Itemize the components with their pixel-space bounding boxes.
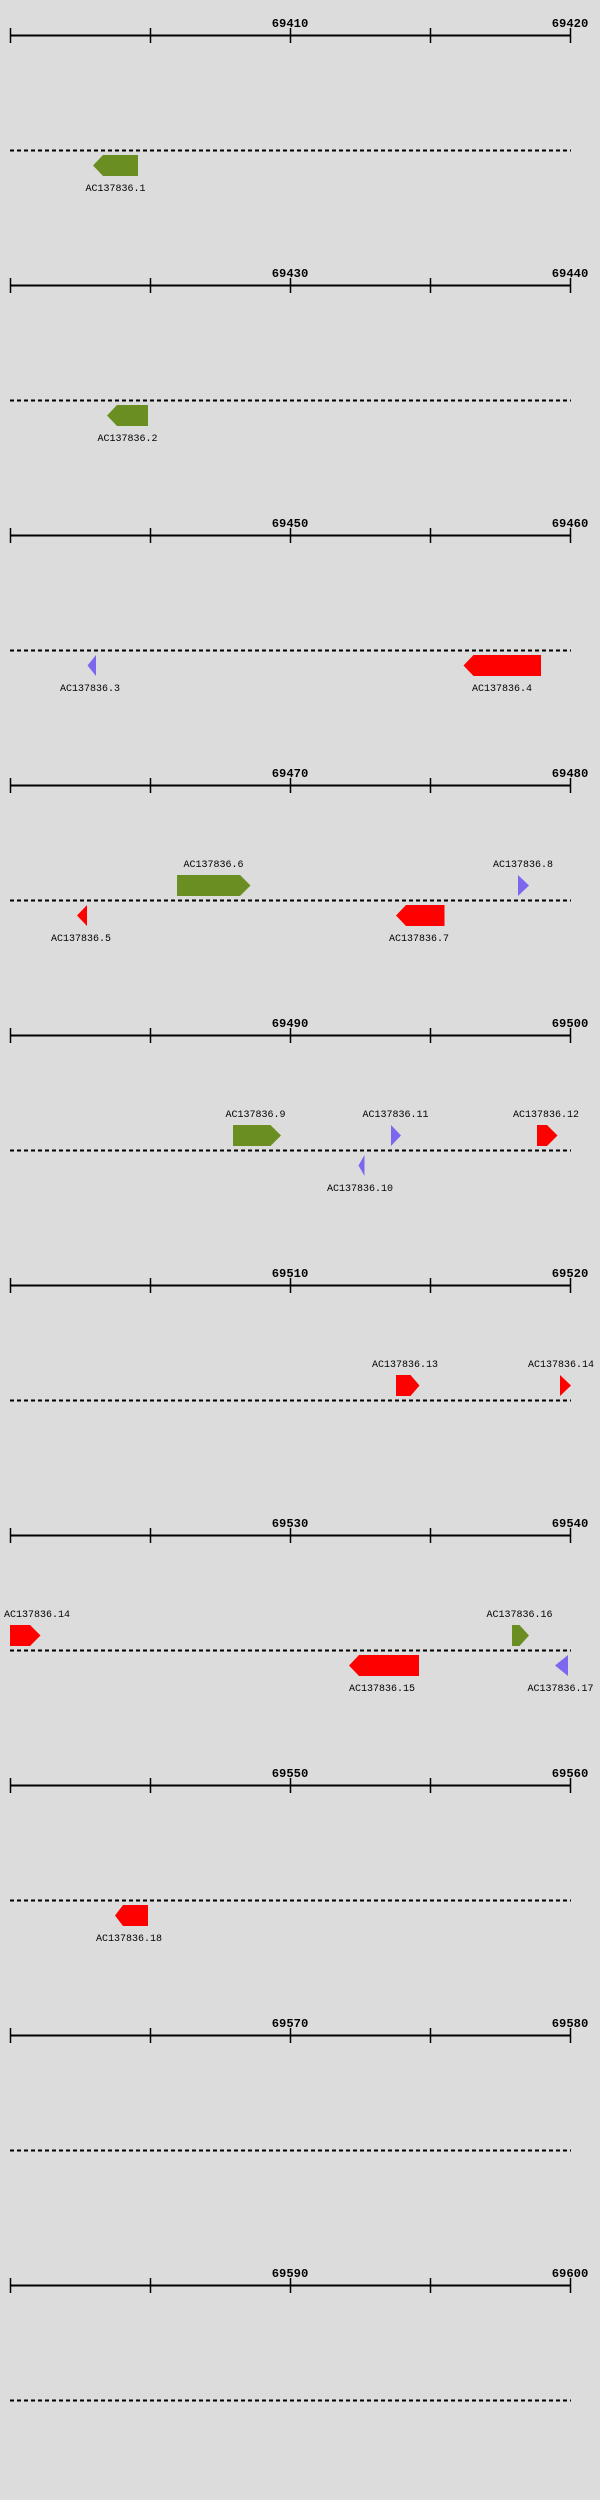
- feature AC137836.10 arrow: [359, 1155, 365, 1176]
- svg-text:69440: 69440: [552, 267, 589, 281]
- panel 8 ruler label 69550: [272, 1767, 309, 1781]
- panel 3 ruler label 69450: [272, 517, 309, 531]
- svg-text:69480: 69480: [552, 767, 589, 781]
- feature AC137836.5 arrow: [77, 905, 87, 926]
- feature AC137836.8 label: [493, 860, 553, 871]
- panel 3 strand divider dashed line: [10, 650, 571, 652]
- panel 4 ruler ticks: [11, 778, 571, 793]
- panel 10 ruler label 69590: [272, 2267, 309, 2281]
- feature AC137836.2 label: [97, 434, 157, 445]
- feature AC137836.17 arrow: [555, 1655, 568, 1676]
- panel 1 strand divider dashed line: [10, 150, 571, 152]
- panel 7 ruler label 69530: [272, 1517, 309, 1531]
- svg-text:AC137836.1: AC137836.1: [85, 184, 145, 195]
- svg-text:AC137836.4: AC137836.4: [472, 684, 532, 695]
- svg-text:AC137836.5: AC137836.5: [51, 934, 111, 945]
- panel 1 ruler label 69420: [552, 17, 589, 31]
- svg-text:69430: 69430: [272, 267, 309, 281]
- feature AC137836.16 arrow: [512, 1625, 529, 1646]
- panel 2 ruler ticks: [11, 278, 571, 293]
- panel 9 ruler label 69570: [272, 2017, 309, 2031]
- feature AC137836.15 label: [349, 1684, 415, 1695]
- panel 5 ruler label 69500: [552, 1017, 589, 1031]
- panel 9 ruler label 69580: [552, 2017, 589, 2031]
- svg-text:69490: 69490: [272, 1017, 309, 1031]
- panel 6 ruler label 69510: [272, 1267, 309, 1281]
- panel 7 ruler line: [10, 1535, 571, 1537]
- panel 9 ruler line: [10, 2035, 571, 2037]
- feature AC137836.1 arrow: [93, 155, 138, 176]
- svg-text:AC137836.14: AC137836.14: [4, 1610, 70, 1621]
- panel 1 ruler label 69410: [272, 17, 309, 31]
- feature AC137836.5 label: [51, 934, 111, 945]
- feature AC137836.4 label: [472, 684, 532, 695]
- svg-text:AC137836.11: AC137836.11: [362, 1110, 428, 1121]
- svg-text:AC137836.15: AC137836.15: [349, 1684, 415, 1695]
- svg-text:69580: 69580: [552, 2017, 589, 2031]
- svg-text:69510: 69510: [272, 1267, 309, 1281]
- panel 5 ruler ticks: [11, 1028, 571, 1043]
- svg-text:AC137836.2: AC137836.2: [97, 434, 157, 445]
- svg-text:AC137836.9: AC137836.9: [225, 1110, 285, 1121]
- panel 8 ruler label 69560: [552, 1767, 589, 1781]
- panel 6 strand divider dashed line: [10, 1400, 571, 1402]
- svg-text:AC137836.12: AC137836.12: [513, 1110, 579, 1121]
- feature AC137836.16 label: [486, 1610, 552, 1621]
- feature AC137836.7 arrow: [396, 905, 445, 926]
- svg-text:AC137836.10: AC137836.10: [327, 1184, 393, 1195]
- panel 4 ruler label 69470: [272, 767, 309, 781]
- panel 9 strand divider dashed line: [10, 2150, 571, 2152]
- feature AC137836.6 arrow: [177, 875, 251, 896]
- panel 9 ruler ticks: [11, 2028, 571, 2043]
- panel 5 strand divider dashed line: [10, 1150, 571, 1152]
- feature AC137836.3 label: [60, 684, 120, 695]
- feature AC137836.6 label: [183, 860, 243, 871]
- svg-text:69570: 69570: [272, 2017, 309, 2031]
- svg-text:69410: 69410: [272, 17, 309, 31]
- feature AC137836.2 arrow: [107, 405, 148, 426]
- feature AC137836.18 arrow: [115, 1905, 148, 1926]
- svg-text:69550: 69550: [272, 1767, 309, 1781]
- feature AC137836.13 label: [372, 1360, 438, 1371]
- feature AC137836.14 arrow: [560, 1375, 571, 1396]
- panel 10 ruler line: [10, 2285, 571, 2287]
- panel 6 ruler label 69520: [552, 1267, 589, 1281]
- svg-text:AC137836.7: AC137836.7: [389, 934, 449, 945]
- feature AC137836.13 arrow: [396, 1375, 420, 1396]
- feature AC137836.9 label: [225, 1110, 285, 1121]
- svg-text:AC137836.18: AC137836.18: [96, 1934, 162, 1945]
- svg-text:AC137836.3: AC137836.3: [60, 684, 120, 695]
- svg-text:69450: 69450: [272, 517, 309, 531]
- feature AC137836.1 label: [85, 184, 145, 195]
- panel 6 ruler ticks: [11, 1278, 571, 1293]
- feature AC137836.15 arrow: [349, 1655, 419, 1676]
- feature AC137836.4 arrow: [464, 655, 542, 676]
- panel 5 ruler label 69490: [272, 1017, 309, 1031]
- svg-text:69520: 69520: [552, 1267, 589, 1281]
- panel 3 ruler line: [10, 535, 571, 537]
- feature AC137836.8 arrow: [518, 875, 529, 896]
- panel 1 ruler ticks: [11, 28, 571, 43]
- panel 1 ruler line: [10, 35, 571, 37]
- svg-text:69600: 69600: [552, 2267, 589, 2281]
- panel 8 strand divider dashed line: [10, 1900, 571, 1902]
- svg-text:69560: 69560: [552, 1767, 589, 1781]
- svg-text:69540: 69540: [552, 1517, 589, 1531]
- svg-text:AC137836.13: AC137836.13: [372, 1360, 438, 1371]
- feature AC137836.14 label: [528, 1360, 594, 1371]
- panel 7 ruler ticks: [11, 1528, 571, 1543]
- feature AC137836.14 arrow: [10, 1625, 41, 1646]
- panel 5 ruler line: [10, 1035, 571, 1037]
- feature AC137836.11 arrow: [391, 1125, 401, 1146]
- feature AC137836.9 arrow: [233, 1125, 281, 1146]
- panel 7 ruler label 69540: [552, 1517, 589, 1531]
- svg-text:AC137836.6: AC137836.6: [183, 860, 243, 871]
- panel 4 strand divider dashed line: [10, 900, 571, 902]
- panel 2 strand divider dashed line: [10, 400, 571, 402]
- panel 8 ruler ticks: [11, 1778, 571, 1793]
- panel 4 ruler line: [10, 785, 571, 787]
- feature AC137836.17 label: [527, 1684, 593, 1695]
- panel 2 ruler label 69430: [272, 267, 309, 281]
- svg-text:69420: 69420: [552, 17, 589, 31]
- panel 8 ruler line: [10, 1785, 571, 1787]
- svg-text:69590: 69590: [272, 2267, 309, 2281]
- feature AC137836.12 arrow: [537, 1125, 558, 1146]
- panel 10 ruler label 69600: [552, 2267, 589, 2281]
- svg-text:AC137836.16: AC137836.16: [486, 1610, 552, 1621]
- feature AC137836.11 label: [362, 1110, 428, 1121]
- svg-text:69530: 69530: [272, 1517, 309, 1531]
- svg-text:AC137836.14: AC137836.14: [528, 1360, 594, 1371]
- panel 10 strand divider dashed line: [10, 2400, 571, 2402]
- feature AC137836.10 label: [327, 1184, 393, 1195]
- panel 2 ruler line: [10, 285, 571, 287]
- svg-text:AC137836.17: AC137836.17: [527, 1684, 593, 1695]
- svg-text:69460: 69460: [552, 517, 589, 531]
- panel 10 ruler ticks: [11, 2278, 571, 2293]
- panel 6 ruler line: [10, 1285, 571, 1287]
- feature AC137836.3 arrow: [88, 655, 97, 676]
- svg-text:69470: 69470: [272, 767, 309, 781]
- feature AC137836.14 label: [4, 1610, 70, 1621]
- feature AC137836.7 label: [389, 934, 449, 945]
- feature AC137836.12 label: [513, 1110, 579, 1121]
- panel 7 strand divider dashed line: [10, 1650, 571, 1652]
- svg-text:AC137836.8: AC137836.8: [493, 860, 553, 871]
- panel 4 ruler label 69480: [552, 767, 589, 781]
- feature AC137836.18 label: [96, 1934, 162, 1945]
- panel 3 ruler label 69460: [552, 517, 589, 531]
- svg-text:69500: 69500: [552, 1017, 589, 1031]
- panel 2 ruler label 69440: [552, 267, 589, 281]
- panel 3 ruler ticks: [11, 528, 571, 543]
